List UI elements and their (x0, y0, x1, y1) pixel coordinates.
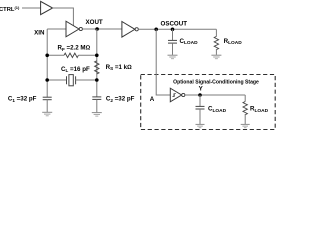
capacitor C1 (43, 97, 52, 112)
crystal Y1 (47, 75, 97, 86)
label CLOAD top (180, 38, 199, 46)
svg-text:OSCOUT: OSCOUT (161, 20, 188, 27)
svg-text:CL =16 pF: CL =16 pF (61, 66, 90, 73)
junction crystal right (95, 78, 99, 82)
svg-text:Optional Signal-Conditioning S: Optional Signal-Conditioning Stage (173, 79, 259, 85)
wire Y output (185, 94, 245, 96)
dashed box optional signal-conditioning stage (141, 75, 276, 130)
svg-text:RS =1 kΩ: RS =1 kΩ (106, 64, 132, 71)
ground RLOAD stage (241, 124, 250, 127)
wire right rail Rs (96, 29, 98, 97)
label RLOAD stage (250, 106, 269, 114)
node label Y (199, 86, 204, 93)
inverter U2 oscillator (66, 21, 82, 37)
label RF value (58, 45, 91, 52)
ground CLOAD top (168, 55, 178, 59)
capacitor CLOAD stage (196, 95, 205, 124)
svg-text:C2 =32 pF: C2 =32 pF (106, 96, 135, 103)
node label CTRL[1] (0, 5, 20, 13)
wire XIN input (47, 28, 66, 30)
capacitor C2 (92, 97, 101, 112)
label RLOAD top (224, 38, 243, 46)
svg-text:C1 =32 pF: C1 =32 pF (8, 96, 37, 103)
wire stage A input (156, 29, 170, 95)
wire XOUT (82, 28, 122, 30)
ground C1 (42, 112, 52, 116)
node Y junction (198, 93, 202, 97)
label C2 value (106, 96, 135, 103)
resistor RLOAD stage (243, 95, 247, 124)
inverter U3 oscout driver (122, 22, 138, 38)
resistor RF 2.2 Mohm (47, 53, 97, 57)
wire U1 output down to U2 (53, 8, 74, 26)
label CLOAD stage (208, 106, 227, 114)
wire CTRL input (22, 7, 41, 9)
junction RF left (45, 54, 49, 58)
label stage title (173, 79, 259, 85)
node label OSCOUT (161, 20, 188, 27)
svg-text:A: A (150, 96, 155, 103)
junction OSCOUT to CLOAD (171, 28, 175, 32)
wire left rail (46, 29, 48, 97)
resistor RLOAD top (214, 29, 218, 55)
junction OSCOUT to stage A (154, 28, 158, 32)
node label XOUT (86, 19, 103, 26)
svg-text:XIN: XIN (34, 29, 45, 36)
junction XOUT node (95, 27, 99, 31)
junction crystal left (45, 78, 49, 82)
node label XIN (34, 29, 45, 36)
buffer U1 control gate (41, 1, 53, 14)
label CL value (61, 66, 90, 73)
svg-text:XOUT: XOUT (86, 19, 103, 26)
capacitor CLOAD top (168, 29, 177, 55)
schmitt inverter U4 (170, 88, 185, 102)
ground RLOAD top (211, 55, 221, 59)
label RS value (106, 64, 132, 71)
junction RF right (95, 54, 99, 58)
node label A (150, 96, 155, 103)
resistor RS 1 kohm (95, 61, 99, 74)
label C1 value (8, 96, 37, 103)
wire OSCOUT (138, 28, 216, 30)
ground CLOAD stage (196, 124, 205, 127)
ground C2 (92, 113, 102, 117)
